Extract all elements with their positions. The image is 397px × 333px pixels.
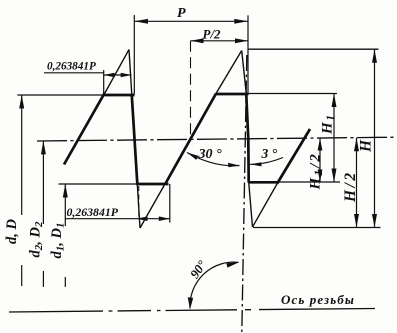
- d2,D2 arrow up: [41, 141, 46, 155]
- tooth 1 crest flat thick: [103, 94, 135, 97]
- root extension line right (to H1 bottom arrow): [279, 181, 341, 183]
- 0.263841P bottom: leader/underline and dimension line: [65, 218, 170, 220]
- svg-text:0,263841P: 0,263841P: [67, 205, 119, 219]
- P dimension extension line left: [133, 15, 135, 95]
- crest extension line right (to H1 arrow): [248, 93, 337, 95]
- H arrows: [372, 49, 377, 63]
- H1/2 dimension line: [319, 138, 321, 182]
- d2,D2 dimension line: [42, 141, 44, 224]
- H1/2 arrows: [318, 138, 323, 151]
- tooth 1 steep flank thin top: [129, 50, 132, 96]
- 0.263841P top extension line (flank-crest corner): [103, 70, 105, 95]
- 0.263841P bottom extension line: [169, 184, 171, 223]
- svg-text:P: P: [177, 6, 186, 21]
- svg-text:H/2: H/2: [342, 170, 359, 203]
- 90 degree angle arc: [190, 262, 239, 308]
- tooth 2 steep flank thin below root to bottom apex: [249, 182, 253, 227]
- theoretical bottom apex extension line right: [253, 227, 381, 229]
- 0.263841P bottom left dashed extension line: [138, 186, 140, 218]
- svg-text:3 °: 3 °: [261, 146, 278, 161]
- tooth 2 crest flat thick: [216, 93, 249, 96]
- axis of thread (dash-dot horizontal at bottom): [9, 309, 375, 313]
- svg-text:0,263841P: 0,263841P: [47, 61, 96, 73]
- svg-text:d, D: d, D: [4, 219, 20, 245]
- 3deg arc arrowhead: [250, 162, 262, 166]
- H/2 arrows: [354, 138, 359, 152]
- H1 arrows: [332, 94, 337, 108]
- 0.263841P bottom arrows: [137, 216, 148, 221]
- crest extension line left (to d,D arrow): [17, 94, 103, 96]
- tooth 2 steep flank thick: [246, 93, 249, 183]
- tooth 1 steep flank thick: [132, 94, 138, 185]
- 0.263841P top arrows: [104, 73, 115, 77]
- tooth 1 steep flank thin below root to bottom apex: [137, 184, 140, 228]
- P/2 dashed extension line: [190, 41, 192, 140]
- tooth 2 steep flank thin top: [242, 51, 247, 95]
- H dimension line: [374, 49, 376, 227]
- tooth 1 flank 30deg thick: [64, 93, 105, 164]
- theoretical apex extension line top right: [248, 48, 379, 50]
- svg-text:Ось резьбы: Ось резьбы: [281, 292, 355, 307]
- d1,D1 dimension line: [64, 184, 66, 226]
- tooth 3 flank 30deg thin below root: [253, 182, 279, 228]
- arrowheads: [19, 19, 377, 310]
- root flat 1-2 thick: [137, 183, 169, 186]
- tooth 2 flank 30deg thick: [165, 94, 216, 185]
- tooth 2 flank 30deg thin to apex: [216, 51, 242, 95]
- P/2 dimension line: [191, 40, 249, 42]
- 90deg arc arrowheads: [188, 297, 194, 309]
- P/2 arrows: [191, 38, 204, 43]
- 30 degree angle arc: [187, 153, 240, 166]
- P dimension line: [134, 20, 248, 22]
- d,D dimension line: [21, 95, 23, 215]
- 0.263841P top: leader/underline and dimension line: [44, 72, 104, 74]
- svg-text:P/2: P/2: [203, 26, 222, 41]
- svg-text:H1/2: H1/2: [308, 152, 326, 190]
- svg-text:H: H: [358, 139, 375, 153]
- thread axis center line (vertical dash-dot through tooth 2 steep flank): [247, 15, 249, 95]
- root extension line left (to d1,D1 arrow): [59, 183, 138, 185]
- tooth 1 flank 30deg thin extension to apex: [104, 50, 129, 96]
- 3 degree angle arc: [250, 158, 283, 165]
- d,D arrow up: [19, 95, 24, 109]
- P arrows: [134, 19, 148, 24]
- svg-text:H1: H1: [320, 113, 338, 135]
- pitch line (dash-dot, d2 level): [37, 137, 397, 141]
- root flat 2-3 thick: [249, 181, 279, 184]
- d1,D1 arrow up: [63, 184, 68, 198]
- tooth 2 flank 30deg thin below root: [140, 183, 166, 228]
- H1 dimension line: [333, 94, 335, 183]
- svg-text:30 °: 30 °: [198, 147, 223, 162]
- 30deg arc arrowheads: [187, 153, 199, 160]
- tooth 3 flank 30deg thick: [277, 129, 310, 184]
- H/2 dimension line: [356, 138, 358, 228]
